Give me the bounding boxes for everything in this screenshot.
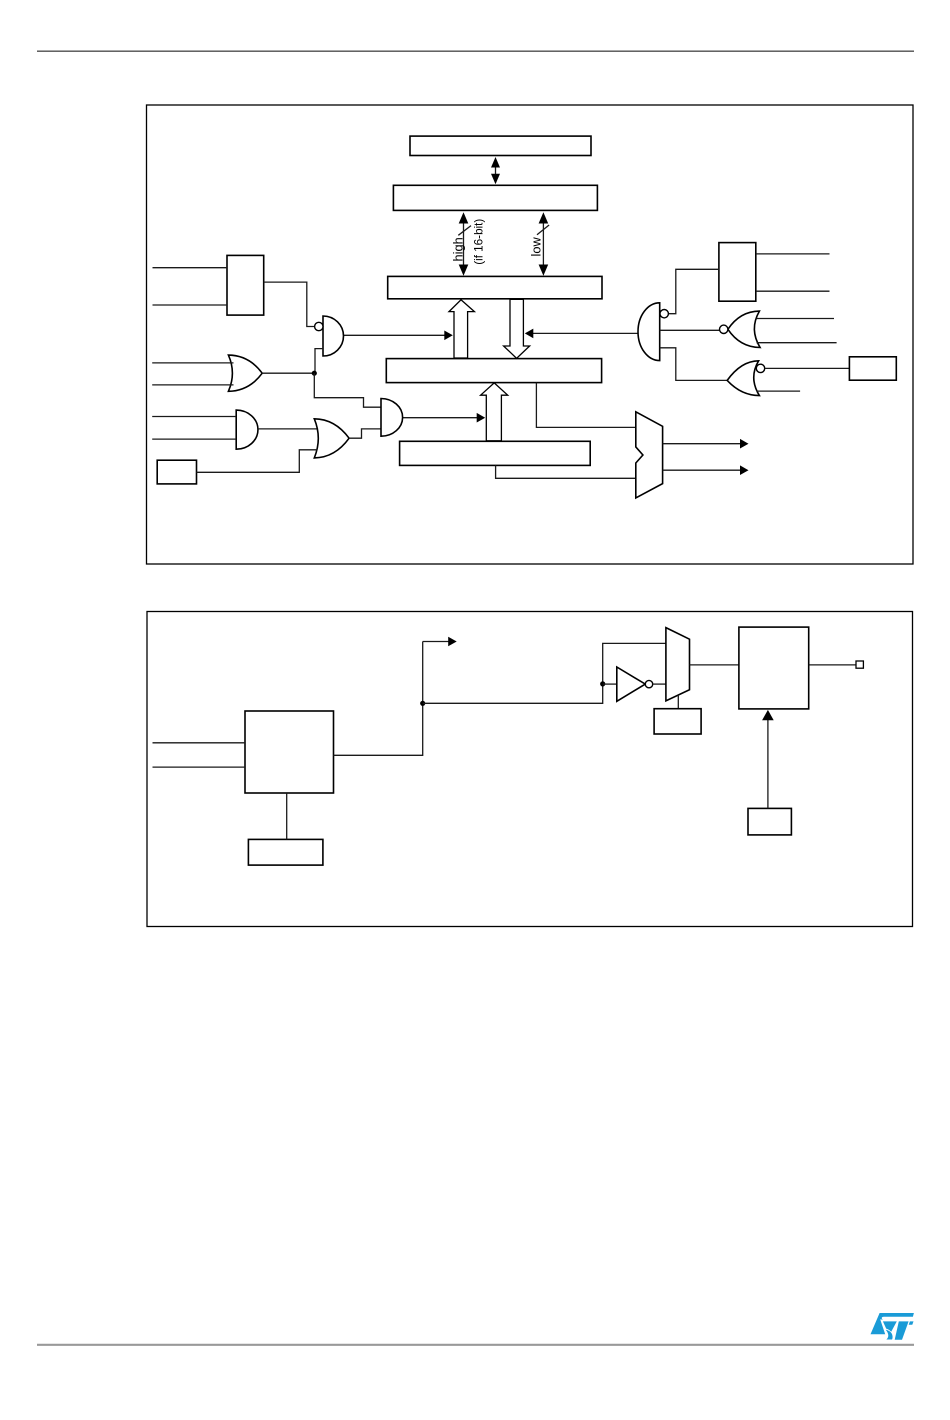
wire B4 to mux input a <box>536 383 635 428</box>
box A (prescaler) <box>245 711 334 793</box>
wire node to G5 top input <box>314 373 381 407</box>
wire box C output <box>809 664 856 666</box>
box BL (small control box) <box>157 460 196 484</box>
box B4 (shift register) <box>386 359 601 383</box>
ST logo <box>871 1313 914 1340</box>
wire mux output a <box>663 439 749 449</box>
wire bidirectional arrow B1-B2 <box>491 157 500 184</box>
svg-text:(if 16-bit): (if 16-bit) <box>472 219 485 265</box>
wire A output riser <box>334 642 423 756</box>
and gate G3 <box>236 410 258 449</box>
bubble G7 output <box>720 325 728 333</box>
wire G4 output to G5 <box>349 429 381 438</box>
wire TR output a <box>756 253 830 255</box>
figure 2 frame <box>147 612 913 927</box>
box B3 (data register) <box>388 276 602 298</box>
wire input G2 a <box>152 362 233 364</box>
block arrow up 1 <box>449 300 474 358</box>
node J3 <box>600 681 605 686</box>
wire arrow into up2 <box>403 413 486 423</box>
wire node to inverter branch <box>423 643 666 703</box>
wire G6 mid input from G7 <box>660 329 720 331</box>
mux M2 <box>666 628 690 701</box>
wire top arrow <box>423 637 457 647</box>
box B2 (wide bus) <box>393 185 597 210</box>
nor gate G7 (mirrored) <box>728 311 760 347</box>
wire G1 lower input from node <box>315 349 323 373</box>
pad square <box>856 661 863 668</box>
wire B5 to mux input b <box>496 465 636 478</box>
wire input A b <box>153 766 246 768</box>
wire write arrow into up1 <box>344 331 453 341</box>
and gate G1 (inverted top input) <box>323 316 343 356</box>
wire input A a <box>153 742 246 744</box>
wire read arrow into down <box>525 329 638 339</box>
wire mux to box C <box>690 664 739 666</box>
svg-text:high: high <box>450 237 465 261</box>
node J1 <box>312 371 317 376</box>
and gate G5 <box>381 399 403 437</box>
block arrow down <box>504 299 530 358</box>
wire inverter to mux <box>653 683 666 685</box>
box A control rect <box>248 839 323 865</box>
wire input G3 a <box>152 416 236 418</box>
bubble G6 input <box>660 310 668 318</box>
wire low double arrow <box>539 212 549 275</box>
wire TR output b <box>756 290 830 292</box>
box C control rect <box>748 808 791 835</box>
figure 1 frame <box>147 105 914 564</box>
bubble U1 <box>645 680 652 687</box>
wire mux select <box>677 695 679 709</box>
box TL (left control block) <box>227 255 264 315</box>
box C (output stage) <box>739 627 809 709</box>
wire input G2 b <box>152 384 233 386</box>
header rule <box>37 50 914 52</box>
wire G7 input a <box>757 318 835 320</box>
wire G2 output to node <box>262 372 314 374</box>
block arrow up 2 <box>481 383 508 441</box>
wire BL to G4 lower input <box>197 450 318 473</box>
or gate G8 (mirrored, inverted top input) <box>727 361 759 396</box>
bus slash low <box>537 225 549 235</box>
box B1 (top bus register) <box>410 136 591 155</box>
wire G6 bottom input from G8 output <box>660 348 728 381</box>
svg-text:low: low <box>529 237 544 257</box>
wire high double arrow <box>459 212 469 275</box>
wire mux output b <box>663 465 749 475</box>
bubble G1 input <box>315 322 323 330</box>
wire A to control rect <box>286 793 288 839</box>
wire G7 input b <box>757 342 837 344</box>
bus slash high <box>458 226 471 236</box>
wire input TL a <box>153 267 228 269</box>
or gate G4 <box>314 419 349 458</box>
wire G8 bottom input <box>757 390 801 392</box>
box MR (right small box) <box>849 357 896 380</box>
footer rule <box>37 1344 914 1346</box>
box M2 control rect <box>654 709 701 734</box>
wire control to box C arrow <box>762 710 774 809</box>
node J2 <box>420 701 425 706</box>
mux M1 <box>636 412 663 498</box>
inverter U1 <box>617 667 646 701</box>
wire node to inverter <box>603 683 617 685</box>
box TR (right control block) <box>719 243 756 302</box>
wire G8 top input to box MR <box>765 367 850 369</box>
and gate G6 (mirrored, 3 inputs) <box>638 303 660 361</box>
wire input TL b <box>153 304 228 306</box>
wire G3 output to G4 <box>258 428 319 430</box>
box B5 (buffer) <box>400 441 591 465</box>
bubble G8 input <box>756 364 764 372</box>
wire input G3 b <box>152 438 236 440</box>
or gate G2 <box>228 355 262 391</box>
wire TR to G6 inverted input <box>668 269 719 313</box>
wire TL to G1 <box>264 282 315 326</box>
